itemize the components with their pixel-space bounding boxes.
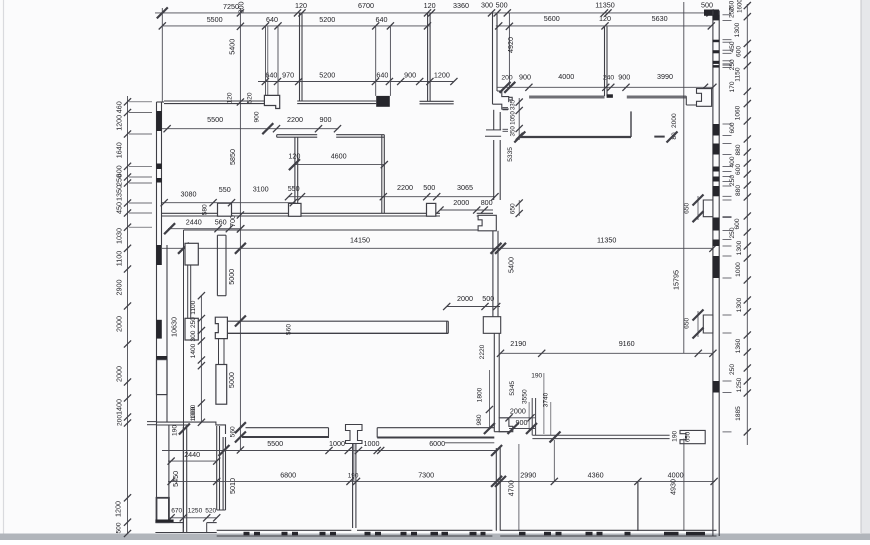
svg-text:550: 550	[288, 184, 300, 193]
svg-text:670: 670	[171, 507, 182, 514]
dim row3 right line	[497, 86, 713, 88]
svg-text:120: 120	[599, 14, 611, 23]
svg-text:900: 900	[320, 115, 332, 124]
left wall outlined pier y359	[157, 360, 168, 395]
pier sq x288	[289, 203, 302, 216]
svg-text:650: 650	[685, 431, 692, 442]
wall 5000 pair	[216, 235, 218, 296]
center wall upper	[492, 13, 494, 104]
wall y213	[162, 212, 441, 214]
svg-text:880: 880	[735, 185, 742, 196]
svg-text:500: 500	[701, 1, 713, 10]
ext x637 upper	[637, 481, 639, 486]
pier connector lines	[218, 339, 220, 365]
room4600 top wall right	[336, 134, 384, 136]
wall corner to y137	[486, 129, 501, 131]
center wall jog y316	[483, 317, 500, 334]
dim row2 left line	[162, 25, 429, 27]
svg-text:5000: 5000	[227, 372, 236, 388]
svg-text:1250: 1250	[736, 377, 743, 392]
left chain lower line	[127, 430, 129, 534]
svg-text:900: 900	[404, 71, 416, 80]
svg-text:3740: 3740	[543, 392, 550, 407]
bottom left wall lines	[155, 522, 183, 524]
svg-text:190: 190	[172, 425, 179, 436]
svg-text:1000: 1000	[329, 439, 345, 448]
svg-text:5850: 5850	[228, 149, 237, 165]
pier x215 y364	[216, 365, 227, 405]
svg-text:500: 500	[496, 1, 508, 10]
wall y96 jog	[685, 96, 687, 105]
svg-text:200: 200	[116, 415, 123, 426]
svg-text:650: 650	[683, 202, 690, 213]
wall x631 vertical	[630, 111, 632, 137]
pier cluster top right	[697, 89, 712, 107]
svg-text:5630: 5630	[652, 14, 668, 23]
svg-text:600: 600	[735, 46, 742, 57]
wall top y101 seg3	[420, 100, 454, 102]
svg-text:120: 120	[288, 152, 300, 161]
ticks on x240	[237, 23, 244, 30]
svg-text:4000: 4000	[668, 471, 684, 480]
svg-text:1360: 1360	[735, 338, 742, 353]
page bottom band	[0, 534, 870, 541]
left wall black fill 4	[156, 245, 162, 265]
svg-text:900: 900	[519, 73, 531, 82]
inner leaf pier 1	[185, 243, 198, 265]
center wall staircase	[493, 91, 513, 109]
svg-text:2190: 2190	[510, 339, 526, 348]
bb top wall seg1	[246, 427, 329, 429]
right chain line	[746, 4, 748, 445]
wall y137 stub	[654, 136, 664, 138]
svg-text:3550: 3550	[522, 389, 529, 404]
svg-text:4360: 4360	[588, 471, 604, 480]
svg-text:250: 250	[114, 174, 123, 186]
svg-text:2000: 2000	[453, 198, 469, 207]
small room walls x532	[531, 398, 533, 435]
wall 190 x183	[182, 427, 184, 533]
bb top wall seg2	[377, 427, 494, 429]
svg-text:2200: 2200	[397, 183, 413, 192]
center wall pier y417	[499, 418, 513, 432]
right wall window fills	[713, 15, 720, 21]
left wall black fill 2	[156, 164, 162, 170]
svg-text:5450: 5450	[171, 471, 180, 487]
svg-text:3100: 3100	[253, 185, 269, 194]
wall 120 x299 vertical	[299, 12, 301, 101]
svg-text:560: 560	[286, 324, 293, 335]
svg-text:190: 190	[531, 373, 542, 380]
room4600 right wall	[381, 135, 383, 214]
dim 3080 row line	[162, 202, 293, 204]
svg-text:460: 460	[114, 101, 123, 113]
svg-text:2000: 2000	[457, 294, 473, 303]
svg-text:4700: 4700	[507, 480, 516, 496]
svg-text:5400: 5400	[228, 39, 237, 55]
pier with notch x264-280	[264, 95, 279, 108]
svg-text:3065: 3065	[457, 183, 473, 192]
svg-text:15795: 15795	[672, 270, 681, 290]
svg-text:5600: 5600	[544, 14, 560, 23]
pier notch x680	[680, 430, 705, 443]
svg-text:2000: 2000	[114, 366, 123, 382]
left wall black fill 3	[156, 178, 162, 183]
svg-text:1000: 1000	[735, 262, 742, 277]
wall line y230	[184, 229, 496, 231]
wall 190 x352 stem	[352, 444, 354, 529]
svg-text:5200: 5200	[319, 15, 335, 24]
svg-text:5335: 5335	[507, 147, 514, 162]
svg-text:1300: 1300	[734, 22, 741, 37]
svg-text:800: 800	[481, 198, 493, 207]
wall stub left of wall	[147, 421, 157, 423]
left chain line	[127, 96, 129, 430]
svg-text:1100: 1100	[190, 300, 197, 315]
svg-text:980: 980	[476, 414, 483, 425]
page left edge line	[3, 0, 5, 540]
svg-text:2000: 2000	[671, 113, 678, 128]
svg-text:11350: 11350	[595, 1, 614, 10]
ext x353 vertical	[353, 444, 355, 481]
pier sq x217	[218, 203, 232, 216]
svg-text:350: 350	[509, 126, 516, 137]
dim row1 line	[155, 12, 713, 14]
center wall bottom	[495, 448, 497, 531]
bottom wall lines right	[500, 529, 716, 531]
svg-text:640: 640	[266, 15, 278, 24]
ext line x240 with labels	[239, 8, 241, 450]
svg-text:200: 200	[501, 75, 513, 82]
svg-text:3360: 3360	[453, 1, 469, 10]
top right wall corner cap	[704, 10, 719, 16]
svg-text:5500: 5500	[207, 115, 223, 124]
svg-text:1100: 1100	[114, 251, 123, 266]
left wall outlined pier y497	[157, 498, 169, 522]
svg-text:250: 250	[729, 364, 736, 375]
svg-text:190: 190	[672, 430, 679, 441]
dim row3 line	[258, 81, 454, 83]
svg-text:250: 250	[729, 7, 736, 18]
svg-text:650: 650	[683, 317, 690, 328]
wall y137 thick	[520, 136, 631, 138]
room4600 left wall	[294, 137, 296, 213]
bottom wall lines	[217, 529, 352, 531]
svg-text:900: 900	[618, 73, 630, 82]
svg-text:1250: 1250	[188, 507, 203, 514]
svg-text:300: 300	[481, 1, 493, 10]
T pier x345	[346, 425, 363, 444]
page right edge strip	[861, 0, 870, 540]
svg-text:1600: 1600	[737, 0, 744, 13]
svg-text:9160: 9160	[619, 339, 635, 348]
ext line x683 15795	[683, 2, 685, 353]
right wall lines	[712, 11, 714, 537]
bold tick x183 y427	[179, 424, 190, 435]
svg-text:335: 335	[510, 99, 517, 110]
svg-text:520: 520	[247, 92, 254, 103]
svg-text:640: 640	[376, 15, 388, 24]
svg-text:1300: 1300	[736, 240, 743, 255]
svg-text:1300: 1300	[736, 297, 743, 312]
svg-text:120: 120	[295, 1, 307, 10]
center wall mid	[493, 140, 495, 200]
svg-text:1060: 1060	[734, 105, 741, 120]
svg-text:4600: 4600	[331, 152, 347, 161]
svg-text:2000: 2000	[114, 316, 123, 332]
svg-text:1400: 1400	[190, 343, 197, 358]
pier chain line	[200, 296, 202, 423]
svg-text:560: 560	[229, 426, 236, 437]
svg-text:4000: 4000	[558, 72, 574, 81]
ext x554 vertical	[553, 440, 555, 481]
wall x183 vertical	[183, 230, 185, 528]
pier sq x426	[427, 203, 436, 216]
svg-text:1000: 1000	[364, 439, 380, 448]
svg-text:11350: 11350	[597, 236, 616, 245]
right wall pier y200	[703, 200, 713, 217]
svg-text:1050: 1050	[509, 111, 516, 125]
wall y435 right segment	[532, 434, 669, 436]
svg-text:2900: 2900	[114, 280, 123, 296]
dim row2 right line	[496, 25, 712, 27]
pier black x376	[376, 96, 390, 107]
wall y96 seg1	[529, 95, 604, 97]
svg-text:120: 120	[424, 1, 436, 10]
svg-text:600: 600	[735, 164, 742, 175]
left wall lower lines	[156, 245, 158, 498]
svg-text:640: 640	[265, 71, 277, 80]
svg-text:170: 170	[729, 81, 736, 92]
right wall pier y315	[703, 315, 713, 333]
svg-text:1200: 1200	[434, 71, 450, 80]
svg-text:2990: 2990	[520, 471, 536, 480]
dim ext 1800 980	[488, 370, 490, 429]
inner leaf pier 2	[185, 318, 198, 340]
ticks x519	[518, 98, 520, 140]
inner leaf wall lines	[187, 265, 189, 318]
svg-text:500: 500	[423, 183, 435, 192]
ext line x162	[161, 8, 163, 102]
svg-text:3080: 3080	[181, 189, 197, 198]
svg-text:5200: 5200	[319, 71, 335, 80]
wall y96 seg2	[627, 95, 687, 97]
svg-text:4920: 4920	[506, 37, 515, 53]
left chain ext ticks to wall	[129, 101, 152, 103]
dim 5500 room line	[162, 128, 339, 130]
wall y213 right stub	[477, 212, 493, 214]
bottom wall window fills	[244, 532, 250, 535]
svg-text:6800: 6800	[280, 471, 296, 480]
wall top y101 seg1	[164, 100, 264, 102]
svg-text:970: 970	[282, 71, 294, 80]
svg-text:3990: 3990	[657, 72, 673, 81]
svg-text:14150: 14150	[350, 236, 370, 245]
svg-text:5000: 5000	[227, 269, 236, 285]
wall jog bottom left	[157, 422, 226, 434]
svg-text:1350: 1350	[114, 185, 123, 201]
svg-text:5345: 5345	[509, 381, 516, 396]
svg-text:10630: 10630	[170, 317, 179, 337]
corridor wall y321	[227, 320, 448, 322]
svg-text:650: 650	[509, 203, 516, 214]
svg-text:520: 520	[205, 507, 216, 514]
svg-text:300: 300	[190, 330, 197, 341]
br ext x683	[683, 439, 685, 531]
br room wall vertical	[637, 482, 639, 531]
svg-text:250: 250	[190, 317, 197, 328]
svg-text:5400: 5400	[506, 257, 515, 273]
left wall black fill 5	[156, 320, 162, 339]
center wall mid upper	[493, 110, 495, 130]
svg-text:5500: 5500	[267, 439, 283, 448]
wall 120 x429 vertical with flange	[427, 12, 429, 101]
left wall black cap y356	[156, 356, 167, 360]
wall y422 lower line	[157, 424, 189, 426]
wall y96 black bit	[607, 94, 613, 98]
right chain ext lines	[723, 14, 732, 16]
svg-text:900: 900	[253, 111, 260, 122]
svg-text:6000: 6000	[429, 439, 445, 448]
svg-text:1150: 1150	[735, 67, 742, 82]
svg-text:4930: 4930	[668, 479, 677, 495]
svg-text:1400: 1400	[114, 399, 123, 415]
svg-text:250: 250	[729, 227, 736, 238]
svg-text:1200: 1200	[114, 501, 123, 517]
wall V2b lines	[216, 426, 218, 510]
svg-text:2440: 2440	[186, 218, 202, 227]
svg-text:1000: 1000	[190, 404, 197, 419]
svg-text:550: 550	[219, 185, 231, 194]
wall top y101 seg2	[297, 100, 376, 102]
svg-text:2220: 2220	[479, 344, 486, 359]
svg-text:120: 120	[227, 92, 234, 103]
wall 120 x604 vertical	[604, 26, 606, 96]
dim 4600	[294, 164, 384, 166]
svg-text:580: 580	[201, 204, 208, 215]
room4600 top wall	[277, 134, 318, 136]
left exterior wall upper lines	[156, 102, 158, 245]
ext 640 pier left	[265, 26, 267, 95]
svg-text:2200: 2200	[287, 115, 303, 124]
ext 640 pier mid	[375, 26, 377, 96]
ext line x509 4920	[508, 12, 510, 87]
pier notch x264 lower	[267, 26, 269, 95]
svg-text:1640: 1640	[114, 142, 123, 158]
center wall pier y215	[478, 215, 496, 231]
svg-text:450: 450	[114, 202, 123, 214]
center wall lower	[493, 333, 495, 431]
svg-text:1030: 1030	[114, 228, 123, 244]
center wall dash pairs	[503, 107, 509, 109]
svg-text:2440: 2440	[184, 450, 200, 459]
svg-text:5010: 5010	[228, 478, 237, 494]
left wall black fill 1	[156, 111, 162, 131]
svg-text:1200: 1200	[114, 115, 123, 131]
bottom left wall black bar	[155, 520, 173, 523]
svg-text:5500: 5500	[207, 15, 223, 24]
svg-text:1885: 1885	[735, 406, 742, 421]
dim 2000 800 line	[440, 209, 493, 211]
H pier x215 y317	[215, 317, 227, 338]
svg-text:880: 880	[735, 144, 742, 155]
svg-text:6700: 6700	[358, 1, 374, 10]
svg-text:500: 500	[116, 522, 123, 533]
svg-text:7300: 7300	[418, 471, 434, 480]
svg-text:1800: 1800	[477, 387, 484, 402]
